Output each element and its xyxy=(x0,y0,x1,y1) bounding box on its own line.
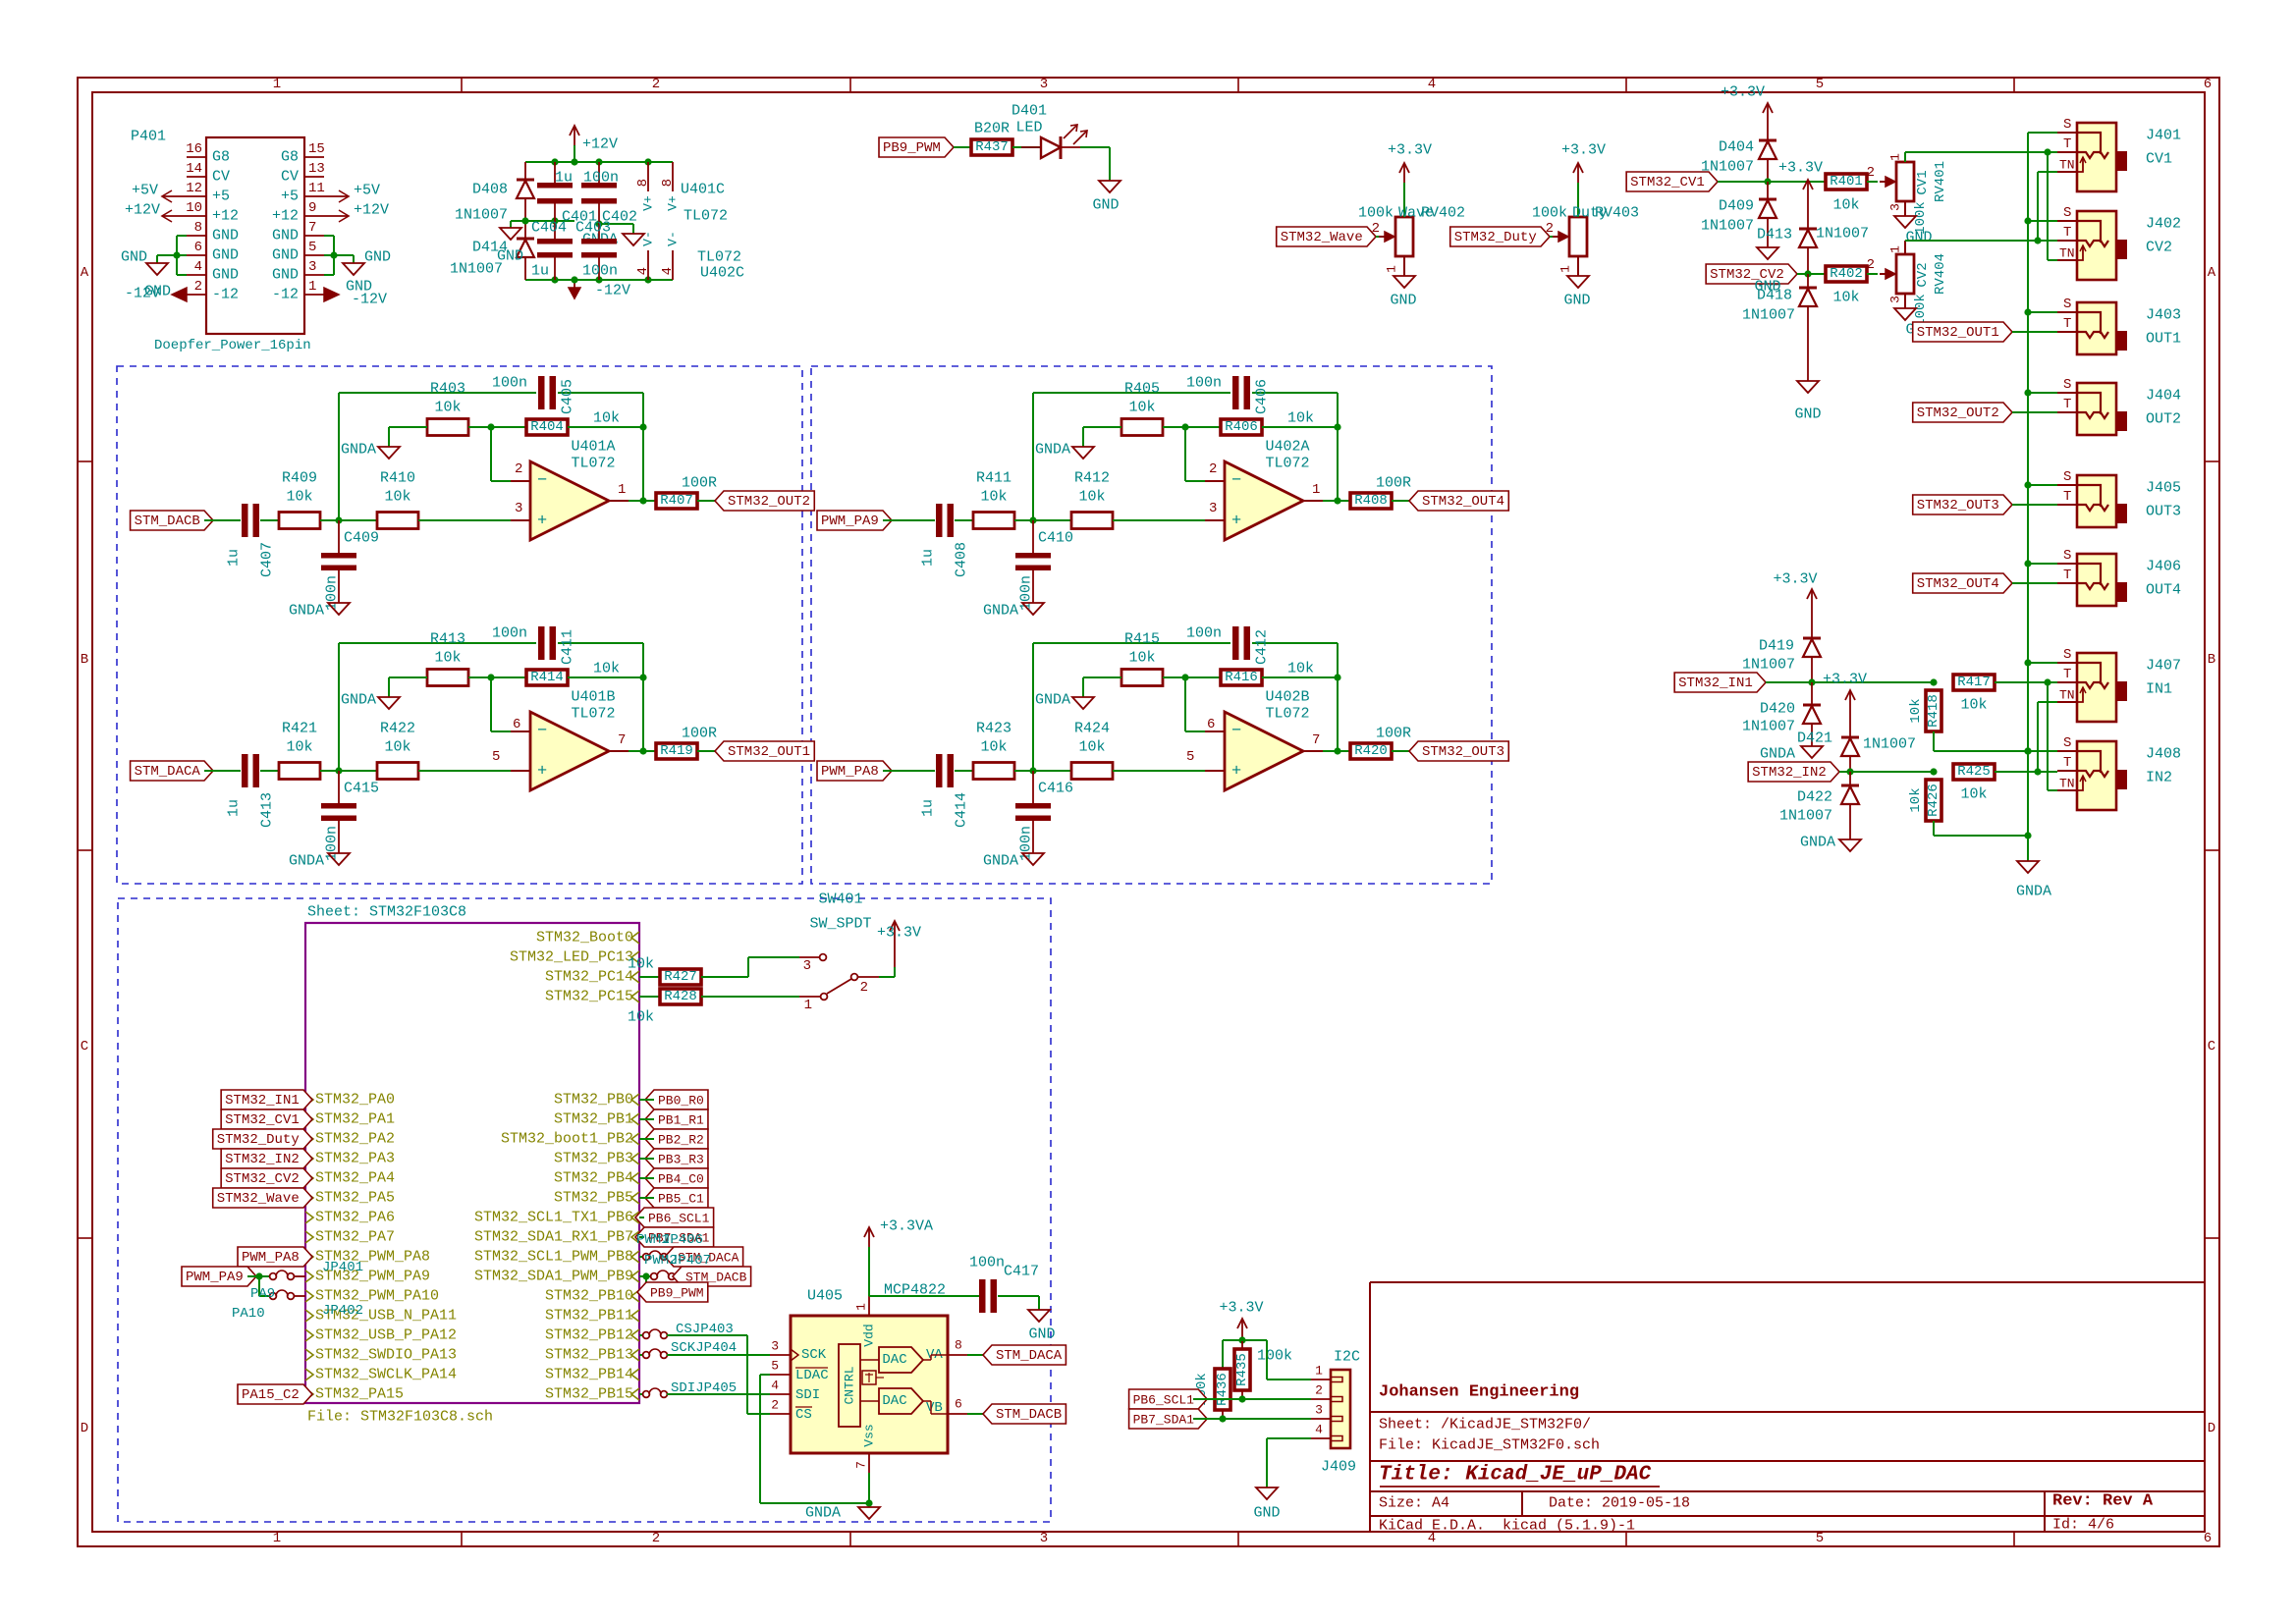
diode D413 1N1007 xyxy=(1807,199,1809,229)
dashed box PWM output filters right xyxy=(811,366,1492,884)
resistor R419 100R xyxy=(656,743,697,759)
svg-text:PWM_PA8: PWM_PA8 xyxy=(242,1250,300,1266)
resistor R421 10k xyxy=(279,763,320,780)
connector J403 OUT1 jack xyxy=(2077,302,2116,354)
svg-text:10k: 10k xyxy=(980,489,1007,506)
svg-text:5: 5 xyxy=(1816,1531,1824,1546)
svg-text:S: S xyxy=(2063,377,2071,393)
resistor R428 10k xyxy=(639,996,660,998)
svg-text:CNTRL: CNTRL xyxy=(843,1366,857,1404)
svg-text:STM32_OUT4: STM32_OUT4 xyxy=(1917,576,1999,592)
svg-text:T: T xyxy=(2063,136,2071,152)
P401 pin 9 xyxy=(304,215,324,217)
svg-text:1u: 1u xyxy=(555,170,573,187)
resistor R412 10k xyxy=(1071,513,1113,529)
svg-text:J409: J409 xyxy=(1321,1459,1356,1476)
svg-text:15: 15 xyxy=(308,141,325,157)
ground GND below D409 xyxy=(1757,247,1778,259)
svg-text:+5V: +5V xyxy=(354,183,380,199)
wire PWM_PA9 to jumpers xyxy=(247,1275,270,1277)
sheet pin STM32_PB14 xyxy=(631,1369,639,1380)
resistor R405 10k xyxy=(1121,419,1163,436)
svg-text:STM32_PA4: STM32_PA4 xyxy=(315,1170,395,1187)
svg-text:Vdd: Vdd xyxy=(862,1324,877,1346)
J409 pin 3 xyxy=(1311,1418,1331,1420)
P401 pin 8 xyxy=(187,235,206,237)
junction J407 T xyxy=(2044,678,2050,685)
svg-text:STM32_PC14: STM32_PC14 xyxy=(545,969,633,986)
svg-text:U402C: U402C xyxy=(700,265,744,282)
capacitor C405 100n xyxy=(538,376,545,409)
junction bus J407 S xyxy=(2024,659,2031,666)
wire STM32_OUT1 to J403 T xyxy=(2012,331,2057,333)
wire GNDA to R405 xyxy=(1083,426,1121,428)
svg-text:PA10: PA10 xyxy=(232,1306,265,1322)
resistor R402 10k xyxy=(1826,266,1867,282)
ground GNDA below C409 xyxy=(328,603,350,615)
wire STM32_OUT3 to J405 T xyxy=(2012,504,2057,506)
wire R410 to op-amp +input xyxy=(418,519,511,521)
svg-text:10k: 10k xyxy=(384,739,410,756)
svg-text:5: 5 xyxy=(492,749,500,765)
diode D422 1N1007 xyxy=(1849,772,1851,785)
P401 pin 16 xyxy=(187,156,206,158)
wire R411 to node xyxy=(1014,519,1071,521)
capacitor C412 100n xyxy=(1232,626,1239,660)
svg-text:D408: D408 xyxy=(472,182,508,198)
wire R414 to output node xyxy=(568,676,643,678)
wire SCL to J409 pin2 xyxy=(1193,1398,1311,1400)
svg-text:C403: C403 xyxy=(575,220,611,237)
svg-text:Johansen Engineering: Johansen Engineering xyxy=(1379,1383,1579,1402)
svg-text:PB2_R2: PB2_R2 xyxy=(658,1133,704,1148)
ground GNDA below C415 xyxy=(328,853,350,865)
junction bus J404 S xyxy=(2024,389,2031,396)
svg-text:+3.3V: +3.3V xyxy=(1773,571,1817,588)
wire STM32_IN2 to R425 xyxy=(1839,771,1934,773)
wire R428 to SW401 pin1 xyxy=(701,996,799,998)
svg-text:V-: V- xyxy=(666,231,681,246)
svg-text:C416: C416 xyxy=(1038,781,1073,797)
wire J408 S to bus xyxy=(2028,750,2057,752)
label PA15_C2 at sheet xyxy=(238,1384,312,1404)
svg-text:STM32_SDA1_RX1_PB7: STM32_SDA1_RX1_PB7 xyxy=(474,1229,633,1246)
label STM32_CV1 xyxy=(1626,172,1718,191)
svg-text:3: 3 xyxy=(1209,501,1217,516)
svg-text:2: 2 xyxy=(1315,1383,1323,1398)
svg-text:2: 2 xyxy=(860,980,868,996)
wire R403 to R404 xyxy=(468,426,526,428)
svg-text:6: 6 xyxy=(955,1397,962,1412)
jumper JP402 xyxy=(270,1293,277,1300)
svg-text:−: − xyxy=(1231,723,1241,741)
capacitor C403 100n xyxy=(598,224,600,239)
svg-text:JP406: JP406 xyxy=(662,1232,703,1248)
svg-text:1N1007: 1N1007 xyxy=(1742,307,1795,324)
P401 +12V arrow right xyxy=(324,215,349,217)
svg-text:D404: D404 xyxy=(1719,139,1754,156)
svg-text:TL072: TL072 xyxy=(571,706,615,723)
resistor R401 10k xyxy=(1826,174,1867,189)
svg-text:10: 10 xyxy=(186,200,202,216)
svg-text:100n: 100n xyxy=(969,1255,1005,1271)
ground GND at C417 xyxy=(1028,1310,1050,1322)
svg-text:7: 7 xyxy=(308,220,316,236)
capacitor C409 100n to GNDA xyxy=(338,520,340,553)
label PB1_R1 xyxy=(645,1109,708,1129)
svg-text:GND: GND xyxy=(144,284,171,300)
svg-text:10k: 10k xyxy=(980,739,1007,756)
dac pin 5 LDAC xyxy=(770,1374,791,1376)
ground GND right of P401 xyxy=(343,263,364,275)
resistor R410 10k xyxy=(377,513,418,529)
connector J405 OUT3 jack xyxy=(2077,475,2116,527)
diode D421 1N1007 xyxy=(1849,710,1851,737)
svg-text:RV404: RV404 xyxy=(1933,253,1948,295)
svg-text:2: 2 xyxy=(1867,165,1875,181)
svg-text:T: T xyxy=(2063,667,2071,682)
svg-text:LDAC: LDAC xyxy=(795,1368,829,1383)
svg-text:DAC: DAC xyxy=(882,1393,906,1409)
svg-text:100n: 100n xyxy=(1018,575,1035,611)
label STM32_OUT2 at J404 xyxy=(1913,403,2012,422)
svg-text:IN1: IN1 xyxy=(2146,681,2172,698)
junction +12V rail xyxy=(644,158,651,165)
svg-text:1: 1 xyxy=(1888,153,1903,161)
svg-text:PB6_SCL1: PB6_SCL1 xyxy=(648,1212,710,1226)
wire sleeve bus GNDA xyxy=(2027,133,2029,836)
wire R406 to output node xyxy=(1262,426,1338,428)
svg-text:1: 1 xyxy=(618,482,626,498)
svg-text:PA15_C2: PA15_C2 xyxy=(242,1387,300,1403)
sheet pin STM32_USB_N_PA11 xyxy=(305,1310,313,1322)
svg-text:16: 16 xyxy=(186,141,202,157)
sheet pin STM32_PB0 xyxy=(631,1094,639,1106)
svg-text:R424: R424 xyxy=(1074,721,1110,737)
svg-text:100k: 100k xyxy=(1257,1348,1292,1365)
svg-text:R437: R437 xyxy=(975,139,1009,155)
svg-text:PWM_PA9: PWM_PA9 xyxy=(186,1270,244,1285)
svg-text:S: S xyxy=(2063,647,2071,663)
svg-text:STM32_PC15: STM32_PC15 xyxy=(545,989,633,1005)
svg-text:GND: GND xyxy=(212,247,239,264)
svg-text:PWM_PA8: PWM_PA8 xyxy=(821,764,879,780)
svg-text:4: 4 xyxy=(194,259,202,275)
power +3.3V above RV402 xyxy=(1403,163,1405,183)
op-amp U401A TL072 xyxy=(530,461,609,540)
wire J406 S to bus xyxy=(2028,563,2057,565)
svg-text:GND: GND xyxy=(272,247,299,264)
potentiometer RV402 100k xyxy=(1395,217,1413,256)
wire Vss to GNDA xyxy=(868,1473,870,1503)
svg-text:RV401: RV401 xyxy=(1933,161,1948,202)
svg-text:+12: +12 xyxy=(272,208,299,225)
wire J401 T junction xyxy=(2044,148,2050,155)
ground GNDA at bus bottom xyxy=(2027,836,2029,861)
svg-text:STM32_IN2: STM32_IN2 xyxy=(225,1152,300,1167)
svg-text:R427: R427 xyxy=(664,969,697,985)
ground GNDA at R413 xyxy=(378,697,400,709)
svg-text:5: 5 xyxy=(308,240,316,255)
svg-text:8: 8 xyxy=(660,179,676,187)
dac CNTRL block xyxy=(839,1344,860,1427)
svg-text:T: T xyxy=(2063,225,2071,241)
label PB6_SCL1 at I2C xyxy=(1129,1389,1208,1409)
svg-text:D401: D401 xyxy=(1011,103,1047,120)
svg-text:1u: 1u xyxy=(531,263,549,280)
svg-text:12: 12 xyxy=(186,181,202,196)
svg-text:6: 6 xyxy=(513,717,520,732)
junction C401 bottom xyxy=(551,217,558,224)
svg-text:STM32_PA0: STM32_PA0 xyxy=(315,1092,395,1109)
wire PB4_C0 stub xyxy=(639,1177,654,1179)
ground GNDA below D420 xyxy=(1801,746,1823,758)
wire R418 bottom to bus xyxy=(1933,731,1935,751)
label STM32_OUT1 at J403 xyxy=(1913,322,2012,342)
power +3.3V above D419 xyxy=(1811,589,1813,609)
ground GND below RV403 xyxy=(1567,276,1589,288)
svg-text:+3.3V: +3.3V xyxy=(1219,1300,1263,1317)
ground GND at J409 xyxy=(1256,1488,1278,1499)
junction P401 right GND xyxy=(330,251,337,258)
label PB6_SCL1 xyxy=(635,1208,714,1227)
svg-text:1u: 1u xyxy=(920,549,937,567)
power -12V xyxy=(574,280,575,288)
svg-text:PB6_SCL1: PB6_SCL1 xyxy=(1133,1393,1195,1408)
svg-text:R409: R409 xyxy=(282,470,317,487)
svg-text:10k: 10k xyxy=(628,956,654,973)
wire PB5_C1 stub xyxy=(639,1197,654,1199)
svg-text:2: 2 xyxy=(1209,461,1217,477)
svg-text:STM32_SCL1_PWM_PB8: STM32_SCL1_PWM_PB8 xyxy=(474,1249,633,1266)
op-amp U401C power pins xyxy=(647,162,649,191)
svg-text:Id: 4/6: Id: 4/6 xyxy=(2052,1517,2114,1534)
wire R402 to RV404 xyxy=(1867,273,1878,275)
svg-text:STM32_OUT3: STM32_OUT3 xyxy=(1917,498,1999,514)
svg-text:Title: Kicad_JE_uP_DAC: Title: Kicad_JE_uP_DAC xyxy=(1379,1464,1652,1487)
ground GND of LED xyxy=(1099,181,1121,192)
svg-text:+12V: +12V xyxy=(125,202,160,219)
resistor R423 10k xyxy=(973,763,1014,780)
sheet pin STM32_PB15 xyxy=(631,1388,639,1400)
J409 pin 2 xyxy=(1311,1398,1331,1400)
sheet pin STM32_PWM_PA9 xyxy=(305,1271,313,1282)
wire STM32_OUT4 to J406 T xyxy=(2012,582,2057,584)
svg-text:R404: R404 xyxy=(530,419,564,435)
svg-text:D421: D421 xyxy=(1797,730,1832,747)
svg-text:GNDA: GNDA xyxy=(1035,692,1070,709)
resistor R418 10k vertical xyxy=(1926,690,1941,731)
svg-text:100n: 100n xyxy=(1186,625,1222,642)
capacitor C406 100n xyxy=(1232,376,1239,409)
svg-text:J406: J406 xyxy=(2146,559,2181,575)
wire PB2_R2 stub xyxy=(639,1138,654,1140)
svg-text:3: 3 xyxy=(308,259,316,275)
svg-text:R435: R435 xyxy=(1234,1353,1250,1386)
svg-text:100n: 100n xyxy=(582,263,618,280)
svg-text:2: 2 xyxy=(652,1531,660,1546)
wire R409 to node xyxy=(320,519,377,521)
svg-text:2: 2 xyxy=(1372,221,1380,237)
sheet pin STM32_PA7 xyxy=(305,1231,313,1243)
resistor R417 10k xyxy=(1953,675,1995,690)
svg-text:Doepfer_Power_16pin: Doepfer_Power_16pin xyxy=(154,338,311,353)
title block xyxy=(1369,1282,1371,1532)
svg-text:10k: 10k xyxy=(1078,739,1105,756)
svg-text:SW401: SW401 xyxy=(818,892,862,908)
wire op-amp output xyxy=(1323,750,1350,752)
svg-text:STM32_LED_PC13: STM32_LED_PC13 xyxy=(510,949,633,966)
wire PB15 to SDI xyxy=(667,1393,770,1395)
P401 +5V arrow right xyxy=(324,195,349,197)
svg-text:SCK: SCK xyxy=(801,1347,827,1363)
svg-text:3: 3 xyxy=(1888,296,1903,303)
svg-text:STM32_SDA1_PWM_PB9: STM32_SDA1_PWM_PB9 xyxy=(474,1269,633,1285)
svg-text:STM32_PA6: STM32_PA6 xyxy=(315,1210,395,1226)
junction +12V rail xyxy=(551,158,558,165)
wire PB0_R0 stub xyxy=(639,1099,654,1101)
svg-text:100k: 100k xyxy=(1358,205,1394,222)
svg-text:R416: R416 xyxy=(1225,670,1258,685)
svg-text:PB3_R3: PB3_R3 xyxy=(658,1153,704,1167)
connector J407 IN1 jack xyxy=(2077,653,2116,722)
label PB5_C1 xyxy=(645,1188,708,1208)
svg-text:D422: D422 xyxy=(1797,789,1832,806)
svg-text:CV1: CV1 xyxy=(2146,151,2172,168)
wire op-amp output xyxy=(1323,500,1350,502)
svg-text:10k: 10k xyxy=(1960,697,1987,714)
svg-text:+12V: +12V xyxy=(354,202,389,219)
sheet pin STM32_SWCLK_PA14 xyxy=(305,1369,313,1380)
wire feedback top xyxy=(1032,393,1034,520)
svg-text:Sheet: STM32F103C8: Sheet: STM32F103C8 xyxy=(307,904,466,921)
label PB7_SDA1 xyxy=(635,1227,714,1247)
svg-text:10k: 10k xyxy=(628,1009,654,1026)
svg-text:IN2: IN2 xyxy=(2146,770,2172,786)
svg-text:10k: 10k xyxy=(1908,787,1924,812)
svg-text:STM32_PB3: STM32_PB3 xyxy=(554,1151,633,1167)
svg-text:10k: 10k xyxy=(1960,786,1987,803)
svg-text:GNDA: GNDA xyxy=(289,853,324,870)
svg-text:PB5_C1: PB5_C1 xyxy=(658,1192,704,1207)
svg-text:OUT3: OUT3 xyxy=(2146,504,2181,520)
svg-text:STM32_OUT3: STM32_OUT3 xyxy=(1422,744,1504,760)
hier label STM_DACA xyxy=(131,761,213,781)
svg-text:U401C: U401C xyxy=(681,182,725,198)
svg-text:C414: C414 xyxy=(954,792,970,828)
svg-text:R401: R401 xyxy=(1830,174,1863,189)
svg-text:10k: 10k xyxy=(593,661,620,677)
svg-text:10k: 10k xyxy=(1832,290,1859,306)
sheet pin STM32_PWM_PA10 xyxy=(305,1290,313,1302)
svg-text:STM_DACB: STM_DACB xyxy=(135,514,200,529)
svg-text:R420: R420 xyxy=(1354,743,1388,759)
sheet pin STM32_PA5 xyxy=(305,1192,313,1204)
label STM32_IN1 at sheet xyxy=(221,1090,312,1109)
svg-text:STM32_Duty: STM32_Duty xyxy=(1454,230,1537,245)
svg-text:GNDA: GNDA xyxy=(341,692,376,709)
resistor R411 10k xyxy=(973,513,1014,529)
connector J401 CV1 jack xyxy=(2077,123,2116,191)
svg-text:R422: R422 xyxy=(380,721,415,737)
junction output xyxy=(1334,747,1340,754)
sheet pin STM32_PC14 xyxy=(631,971,639,983)
capacitor C415 100n to GNDA xyxy=(338,771,340,803)
svg-text:STM32_IN1: STM32_IN1 xyxy=(225,1093,300,1109)
wire R405 to R406 xyxy=(1163,426,1221,428)
wire STM32_IN1 to R417 xyxy=(1766,681,1934,683)
dashed box DAC output filters left xyxy=(117,366,802,884)
capacitor C408 1u xyxy=(936,504,943,537)
svg-text:TN: TN xyxy=(2059,777,2075,791)
wire R419 to STM32_OUT1 xyxy=(697,750,724,752)
sheet pin STM32_Boot0 xyxy=(631,932,639,944)
sheet pin STM32_PB4 xyxy=(631,1172,639,1184)
svg-text:+12: +12 xyxy=(212,208,239,225)
wire feedback top xyxy=(338,643,340,771)
svg-text:STM32_IN1: STM32_IN1 xyxy=(1678,676,1753,691)
wire op-amp output xyxy=(629,750,656,752)
P401 pin 10 xyxy=(187,215,206,217)
label PB7_SDA1 at I2C xyxy=(1129,1409,1208,1429)
resistor R424 10k xyxy=(1071,763,1113,780)
junction Vss GNDA xyxy=(865,1499,872,1506)
connector P401 xyxy=(206,137,304,334)
svg-text:U401B: U401B xyxy=(571,689,615,706)
junction CV2 node xyxy=(1804,270,1811,277)
svg-text:CV1: CV1 xyxy=(1915,170,1931,194)
svg-text:GNDA: GNDA xyxy=(341,442,376,459)
svg-text:GND: GND xyxy=(212,228,239,244)
svg-text:File: KicadJE_STM32F0.sch: File: KicadJE_STM32F0.sch xyxy=(1379,1437,1600,1454)
junction feedback node xyxy=(1181,423,1188,430)
wire feedback top xyxy=(1032,643,1034,771)
ground GND mid rail xyxy=(510,221,512,228)
wire C413 to R421 xyxy=(260,770,279,772)
svg-text:GND: GND xyxy=(212,267,239,284)
power +3.3V above D421 xyxy=(1849,690,1851,710)
svg-text:OUT2: OUT2 xyxy=(2146,411,2181,428)
svg-text:+3.3V: +3.3V xyxy=(1561,142,1606,159)
junction R418 top xyxy=(1930,678,1937,685)
switch SW401 SW_SPDT xyxy=(799,956,820,958)
P401 -12V arrow left pin2 xyxy=(172,294,187,296)
svg-text:STM32_PB5: STM32_PB5 xyxy=(554,1190,633,1207)
label PWM_PA9 at sheet xyxy=(182,1267,256,1286)
label PB3_R3 xyxy=(645,1149,708,1168)
connector J404 OUT2 jack xyxy=(2077,383,2116,435)
junction bus J402 S xyxy=(2024,217,2031,224)
op-amp U402A TL072 xyxy=(1225,461,1303,540)
wire J404 S to bus xyxy=(2028,392,2057,394)
svg-text:+5V: +5V xyxy=(132,183,158,199)
wire VB to STM_DACB xyxy=(967,1413,992,1415)
resistor R425 10k xyxy=(1953,764,1995,780)
svg-text:2: 2 xyxy=(1546,221,1554,237)
junction bus J403 S xyxy=(2024,308,2031,315)
wire C407 to R409 xyxy=(260,519,279,521)
svg-text:GNDA: GNDA xyxy=(289,603,324,620)
svg-text:2: 2 xyxy=(771,1398,779,1413)
svg-text:D419: D419 xyxy=(1759,638,1794,655)
junction feedback node xyxy=(487,423,494,430)
dac pin 2 CS xyxy=(770,1413,791,1415)
svg-text:PB1_R1: PB1_R1 xyxy=(658,1113,704,1128)
svg-text:R412: R412 xyxy=(1074,470,1110,487)
svg-text:V-: V- xyxy=(641,231,656,246)
sheet pin STM32_PA2 xyxy=(305,1133,313,1145)
wire R426 bottom to bus xyxy=(1933,821,1935,836)
